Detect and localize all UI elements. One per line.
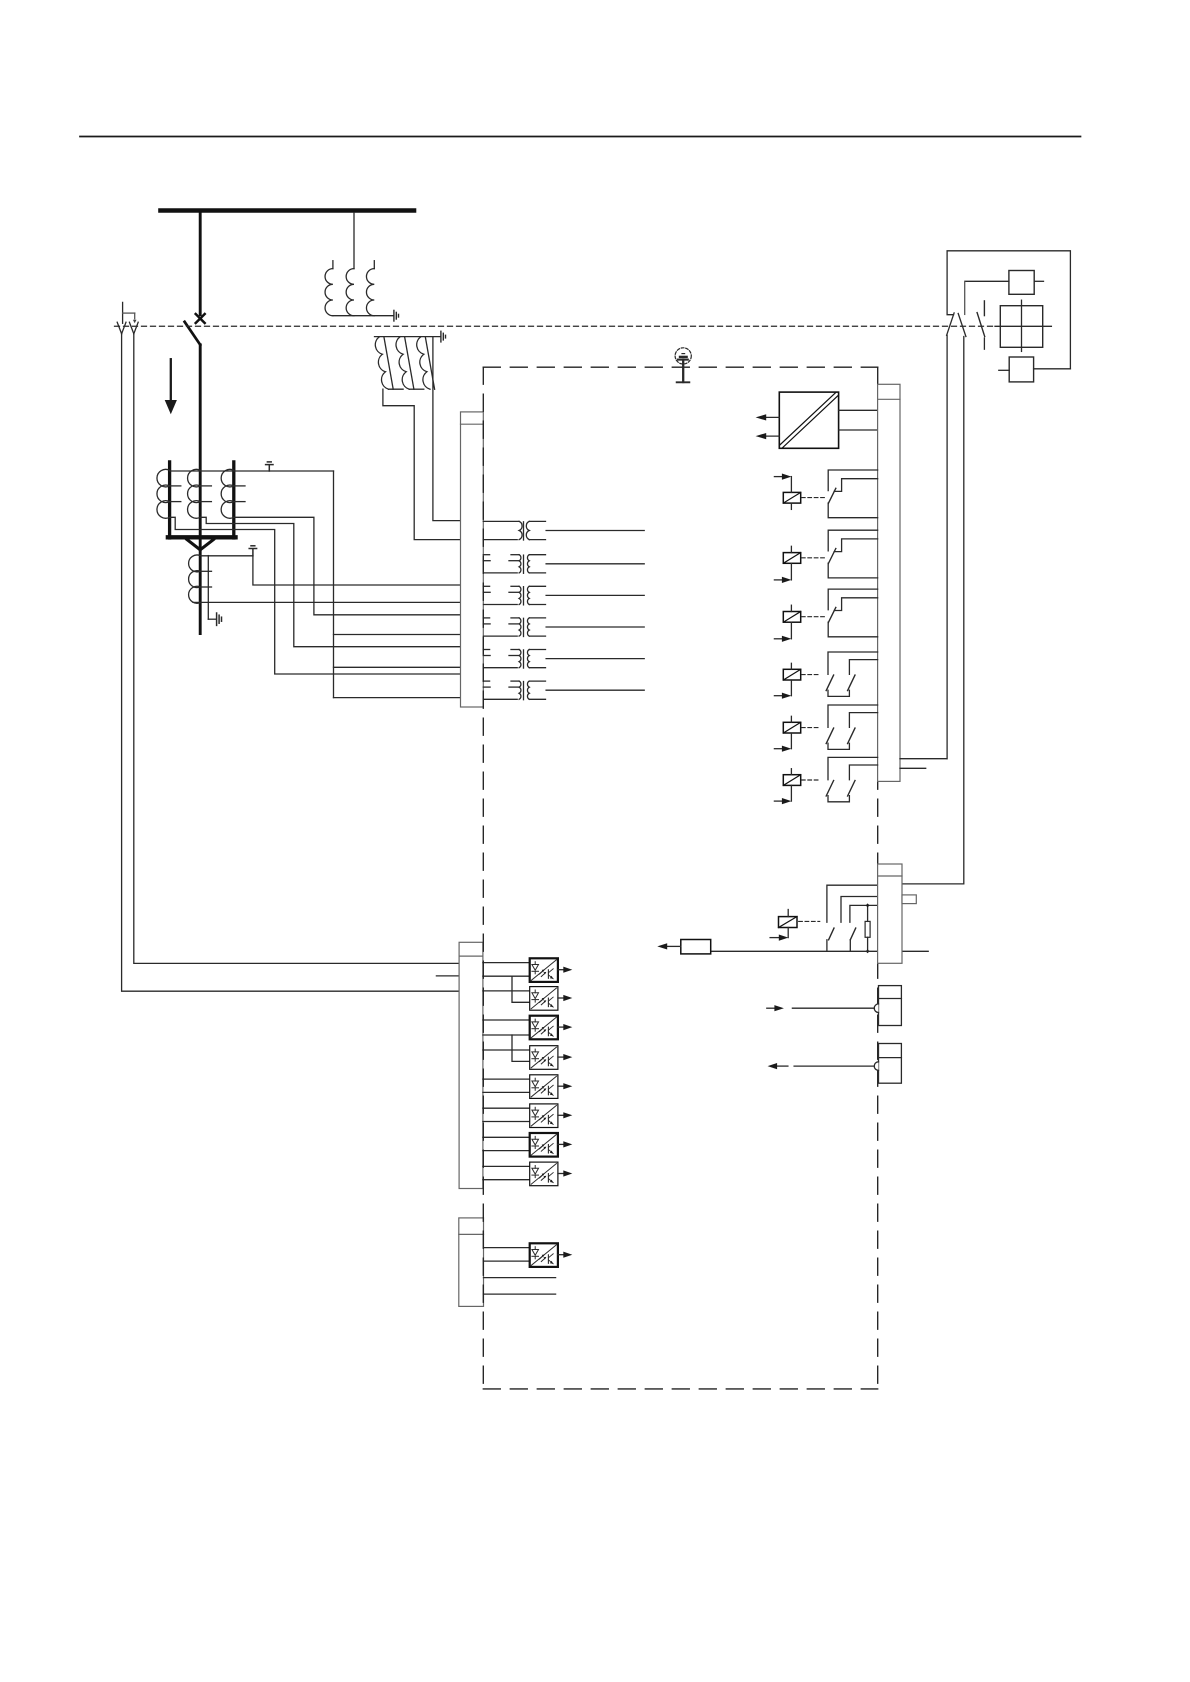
relay current input transformer row 4	[483, 618, 644, 637]
core CT shield earthing	[208, 618, 216, 620]
binary input optocoupler BI3	[530, 1016, 573, 1040]
binary input optocoupler BI5	[530, 1075, 573, 1099]
CT set star-point V	[187, 540, 214, 550]
relay current input transformer row 6	[483, 681, 644, 700]
binary input optocoupler BI4	[530, 1046, 573, 1070]
BI6 wires	[483, 1107, 530, 1109]
feeder line lower segment	[199, 345, 202, 634]
binary input optocoupler BI2	[530, 987, 573, 1011]
breaker open-position X mark	[196, 314, 205, 323]
core balance CT coil	[189, 555, 201, 603]
BI4 wire	[483, 1049, 530, 1051]
auxiliary binary input terminal strip	[459, 1218, 484, 1307]
circuit breaker control box outline	[947, 251, 1070, 369]
power supply output arrow lower	[756, 433, 780, 439]
binary input terminal strip	[459, 942, 483, 1188]
BI9 wires	[484, 1247, 530, 1249]
life contact common wire	[711, 950, 878, 952]
output relay K4 double-gap contact	[826, 652, 877, 696]
binary input optocoupler BI1	[530, 958, 573, 982]
BI7 wires	[483, 1136, 530, 1138]
core CT grounded lead with earth symbol	[202, 555, 253, 557]
trip circuit wire (outer)	[122, 334, 460, 991]
CT phase C secondary wire	[234, 517, 461, 615]
BI1/BI2 common wire with jog	[483, 975, 530, 977]
switchgear panel dashed boundary line	[115, 325, 997, 327]
service interface port	[767, 986, 902, 1026]
breaker auxiliary contact	[977, 301, 985, 349]
output relay K6 coil	[774, 769, 820, 805]
CT set bottom bar	[168, 535, 236, 539]
binary input optocoupler BI6	[530, 1104, 573, 1128]
output relay K5 double-gap contact	[826, 705, 877, 749]
breaker trip coil (top square)	[965, 271, 1044, 315]
spare input stub wires	[484, 1277, 556, 1279]
output relay K5 coil	[774, 716, 820, 752]
BI3/BI4 common wire with jog	[483, 1034, 530, 1036]
output relay K1 contact	[828, 470, 877, 518]
power supply converter block	[779, 392, 838, 448]
breaker wire break marks	[947, 313, 966, 337]
output relay K3 coil	[774, 605, 826, 642]
breaker mechanism (window square)	[995, 300, 1051, 351]
output relay K2 coil	[774, 546, 826, 583]
time synchronisation port	[768, 1044, 902, 1084]
load direction arrow	[165, 359, 177, 414]
CT star-point common bus wire	[333, 471, 335, 698]
feeder line upper segment	[199, 213, 202, 315]
trip circuit wire (inner)	[134, 334, 459, 964]
core CT return wire to relay	[193, 601, 461, 603]
CT secondary coils	[157, 469, 245, 518]
CT phase A secondary wire	[170, 517, 461, 674]
life contact changeover contacts	[827, 885, 878, 951]
busbar voltage transformer (3-phase)	[325, 261, 394, 316]
breaker wire down to life contact	[902, 337, 964, 884]
life contact resistor	[865, 903, 870, 953]
current/voltage input terminal strip	[461, 412, 484, 707]
output terminal strip	[878, 384, 900, 781]
output relay K6 double-gap contact	[826, 757, 877, 801]
binary input optocoupler BI7	[530, 1133, 573, 1157]
relay case protective earth symbol	[675, 348, 691, 383]
breaker close coil (bottom square)	[999, 357, 1071, 382]
BI5 wires	[483, 1078, 530, 1080]
cable break marks at boundary	[117, 322, 138, 334]
busbar VT connection line	[353, 213, 355, 269]
BI8 wires	[483, 1165, 530, 1167]
page header rule	[80, 136, 1081, 138]
BI3 wire	[483, 1019, 530, 1021]
BI1 wire	[483, 962, 530, 964]
output relay K2 contact	[828, 530, 877, 578]
VT secondary wire b (to relay voltage input)	[383, 389, 461, 539]
protection relay dashed enclosure (top and bottom edges)	[483, 367, 877, 1389]
breaker trip wire down to output contact	[946, 335, 948, 758]
output relay K3 contact	[828, 589, 877, 637]
binary input optocoupler BI9	[530, 1243, 573, 1267]
CT star line with functional-earth symbol	[170, 470, 334, 472]
VT secondary wire a (to relay voltage input)	[433, 337, 461, 521]
core CT wire to relay (via ground stem)	[253, 556, 461, 585]
BI2 wire	[483, 990, 530, 992]
power supply output arrow upper	[756, 414, 780, 420]
feeder VT earthing symbol	[441, 331, 446, 342]
binary input common stub wire	[436, 975, 459, 977]
trip circuit wire from output strip to breaker box	[900, 758, 947, 760]
power supply input wires	[839, 409, 878, 411]
feeder voltage transformer (open-delta, slanted coils)	[375, 337, 441, 390]
trip circuit cable hook symbol	[123, 302, 137, 323]
spare output stub wire	[900, 767, 926, 769]
relay voltage input transformer row 1	[483, 521, 644, 540]
circuit breaker blade	[185, 322, 201, 345]
relay current input transformer row 2	[483, 555, 644, 574]
phase current transformer set primary bars	[170, 462, 234, 538]
busbar	[161, 208, 415, 213]
relay current input transformer row 3	[483, 586, 644, 605]
life contact output device box	[657, 940, 710, 954]
output relay K4 coil	[774, 663, 820, 699]
binary input optocoupler BI8	[530, 1162, 573, 1186]
relay enclosure dashed left edge (overlay)	[482, 367, 484, 1389]
life contact relay coil	[770, 910, 820, 941]
busbar VT earthing symbol	[394, 310, 399, 321]
life contact terminal strip	[878, 864, 917, 963]
output relay K1 coil	[774, 474, 826, 510]
CT phase B secondary wire	[200, 517, 460, 646]
relay current input transformer row 5	[483, 650, 644, 669]
